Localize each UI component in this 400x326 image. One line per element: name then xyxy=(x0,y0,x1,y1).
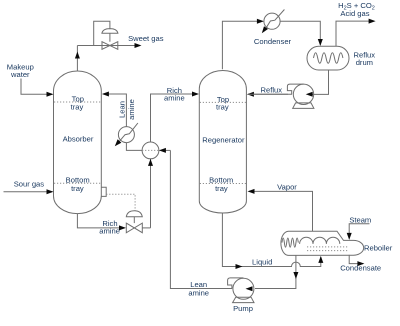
vapor wire from reboiler xyxy=(249,191,313,231)
lean amine top wire into absorber xyxy=(103,94,126,127)
valve V1 stem xyxy=(109,33,111,42)
arrow into drum xyxy=(318,39,323,46)
svg-text:Acid gas: Acid gas xyxy=(340,9,369,18)
svg-text:Condensate: Condensate xyxy=(340,264,381,273)
rich amine arrow into regenerator xyxy=(192,92,199,97)
arrow into condenser xyxy=(257,19,264,24)
valve V1 actuator dome xyxy=(102,29,118,34)
acid gas arrow xyxy=(369,19,376,24)
arrow before valve xyxy=(119,225,126,230)
svg-text:tray: tray xyxy=(216,103,229,112)
lean amine riser wire xyxy=(170,150,232,288)
sweet gas arrow xyxy=(135,43,142,48)
svg-text:Vapor: Vapor xyxy=(277,182,297,191)
lean amine arrow into absorber xyxy=(102,92,109,97)
wire valve to riser xyxy=(142,227,150,229)
pump P2 xyxy=(233,278,254,299)
arrow into exchanger right xyxy=(159,148,166,153)
vapor arrow into regenerator xyxy=(248,189,255,194)
rich amine riser wire xyxy=(150,159,152,228)
cooler E1 arrow xyxy=(115,139,122,146)
condenser diagonal xyxy=(264,10,284,32)
lean amine wire from pump riser xyxy=(160,149,170,151)
arrow into pump xyxy=(246,286,253,291)
regenerator bottoms wire xyxy=(222,213,320,267)
reflux wire into regenerator xyxy=(248,93,288,95)
absorber level nozzle xyxy=(101,187,106,196)
down arrow on lean amine xyxy=(293,272,298,279)
sour gas arrow xyxy=(47,189,54,194)
condenser outlet wire to drum xyxy=(280,21,320,44)
condenser arrow xyxy=(262,26,268,33)
valve V2 stem xyxy=(133,217,135,223)
regenerator vessel xyxy=(199,70,246,213)
svg-text:amine: amine xyxy=(127,99,136,120)
liquid arrow xyxy=(236,264,243,269)
valve V2 actuator dome xyxy=(126,211,142,217)
svg-text:water: water xyxy=(10,70,30,79)
regenerator overhead wire to condenser xyxy=(222,21,262,69)
svg-text:tray: tray xyxy=(215,184,228,193)
steam wire xyxy=(349,224,369,239)
reboiler tube bundle scallops xyxy=(300,237,340,244)
exchanger E2 dashed tube line xyxy=(142,149,159,151)
cooler E1 circle xyxy=(118,127,134,143)
cooler E1 diagonal xyxy=(117,123,138,144)
cooler to exchanger wire xyxy=(126,143,142,151)
acid gas wire xyxy=(336,21,374,46)
reflux pump P1 xyxy=(293,84,313,104)
svg-text:Absorber: Absorber xyxy=(63,135,94,144)
lean amine wire from reboiler to pump xyxy=(255,255,296,288)
svg-text:Lean: Lean xyxy=(118,101,127,118)
svg-text:tray: tray xyxy=(71,102,84,111)
reflux drum vessel xyxy=(307,46,349,70)
svg-text:amine: amine xyxy=(188,289,209,298)
valve signal loop wire xyxy=(94,21,110,45)
absorber top tray dotted line xyxy=(54,101,101,103)
regenerator bottom tray dotted line xyxy=(200,183,246,185)
condenser circle xyxy=(264,13,280,29)
svg-text:amine: amine xyxy=(164,94,185,103)
svg-text:Reflux: Reflux xyxy=(261,86,283,95)
reflux arrow xyxy=(247,92,254,97)
svg-text:Sour gas: Sour gas xyxy=(14,180,45,189)
level signal dotted line xyxy=(106,194,135,210)
valve V2 body xyxy=(126,223,142,233)
svg-text:Pump: Pump xyxy=(233,304,253,313)
makeup water arrow xyxy=(47,92,54,97)
svg-text:tray: tray xyxy=(71,184,84,193)
drum outlet wire to pump xyxy=(308,70,329,94)
svg-text:drum: drum xyxy=(356,58,373,67)
svg-text:Regenerator: Regenerator xyxy=(202,135,245,144)
absorber vessel xyxy=(53,71,101,214)
exchanger E2 circle xyxy=(142,142,159,159)
svg-text:amine: amine xyxy=(99,227,120,236)
steam arrow xyxy=(347,233,352,240)
condensate arrow xyxy=(357,261,364,266)
arrow up into reboiler xyxy=(318,256,323,263)
svg-text:Sweet gas: Sweet gas xyxy=(128,34,164,43)
reflux drum coil xyxy=(314,53,343,64)
arrow into reflux pump xyxy=(306,92,313,97)
rich amine top wire to regenerator xyxy=(151,94,198,142)
svg-text:Steam: Steam xyxy=(349,216,371,225)
sour gas wire xyxy=(4,191,53,193)
absorber bottom tray dotted line xyxy=(54,182,101,184)
svg-text:Reboiler: Reboiler xyxy=(364,243,393,252)
svg-text:Liquid: Liquid xyxy=(252,258,272,267)
reflux discharge wire xyxy=(248,93,292,95)
condensate wire xyxy=(349,255,363,264)
makeup water wire xyxy=(21,79,52,95)
svg-text:Condenser: Condenser xyxy=(254,37,292,46)
reboiler shell xyxy=(281,231,364,255)
reboiler dotted level lines xyxy=(307,246,349,248)
riser up arrow xyxy=(75,52,80,59)
arrow up into exchanger bottom xyxy=(148,159,153,166)
reboiler coil left xyxy=(282,238,298,247)
sweet gas riser wire xyxy=(76,46,78,72)
valve V1 body xyxy=(102,42,118,50)
sweet gas pipe wire xyxy=(77,45,140,47)
absorber bottoms wire to valve xyxy=(77,214,124,228)
regenerator top tray dotted line xyxy=(200,101,246,103)
